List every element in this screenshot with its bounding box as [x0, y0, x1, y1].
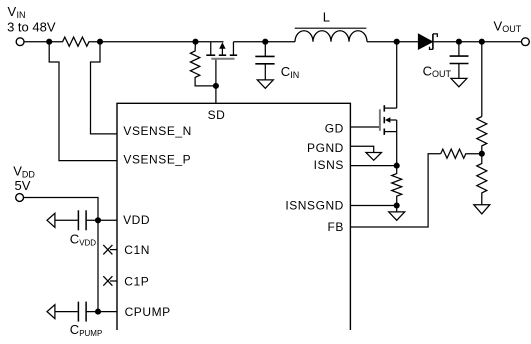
svg-text:C1N: C1N — [124, 243, 150, 257]
junction E (CIN tap) — [262, 39, 268, 45]
ground (divider) — [474, 205, 490, 214]
svg-text:ISNS: ISNS — [314, 158, 344, 172]
svg-text:ISNSGND: ISNSGND — [285, 199, 344, 213]
junction I (ISNS node) — [394, 163, 400, 169]
svg-text:C: C — [423, 63, 432, 78]
terminal V_DD — [16, 194, 24, 202]
ground (under COUT) — [451, 78, 467, 86]
wire PMOS drain to inductor — [233, 41, 295, 43]
wire VDD node to CPUMP node — [97, 220, 99, 311]
junction A (VSENSE_P tap) — [46, 39, 52, 45]
junction L (VDD node) — [95, 217, 101, 223]
svg-text:5V: 5V — [15, 178, 31, 193]
transistor Q1 PMOS pass FET — [206, 42, 237, 59]
IC U1 (controller outline, open at bottom) — [117, 103, 350, 330]
svg-text:C1P: C1P — [124, 274, 149, 288]
capacitor CPUMP — [55, 302, 117, 322]
svg-text:SD: SD — [208, 108, 226, 122]
wire ISNSGND — [350, 205, 396, 207]
wire VDD input — [24, 198, 99, 221]
svg-text:V: V — [8, 4, 17, 19]
resistor (divider upper) — [477, 117, 487, 154]
svg-text:L: L — [323, 10, 330, 25]
wire ISNS — [350, 165, 396, 167]
capacitor CVDD — [55, 210, 117, 230]
wire VSENSE_N — [91, 42, 118, 134]
junction F (switch node) — [394, 39, 400, 45]
svg-text:V: V — [13, 164, 22, 179]
junction G (COUT tap) — [456, 39, 462, 45]
terminal V_IN — [16, 38, 24, 46]
wire inductor to diode — [367, 41, 418, 43]
ground (under CIN) — [257, 80, 273, 88]
svg-text:C: C — [70, 232, 79, 247]
svg-text:OUT: OUT — [432, 69, 452, 79]
node V_IN label — [7, 4, 56, 34]
wire ISNSGND node to ground — [396, 206, 398, 212]
wire SD (gate lead) — [215, 60, 217, 104]
junction K (FB divider node) — [479, 151, 485, 157]
transistor Q2 NMOS switch — [380, 42, 397, 166]
no-connect X on C1P — [103, 276, 117, 286]
wire diode to VOUT — [434, 41, 522, 43]
wire input rail to PMOS — [100, 41, 224, 43]
svg-text:PUMP: PUMP — [79, 329, 102, 338]
junction D (SD gate node) — [213, 83, 219, 89]
wire FB — [350, 154, 440, 227]
svg-text:3 to 48V: 3 to 48V — [7, 19, 56, 34]
svg-text:GD: GD — [325, 122, 344, 136]
ground (CPUMP, left pointing) — [47, 305, 55, 319]
resistor (input sense) — [49, 37, 100, 46]
svg-text:PGND: PGND — [307, 141, 344, 155]
junction J (ISNSGND node) — [394, 202, 400, 208]
diode D1 schottky — [418, 34, 437, 50]
inductor L — [295, 31, 367, 42]
node V_DD label — [13, 164, 35, 194]
svg-text:VSENSE_P: VSENSE_P — [123, 152, 191, 166]
label COUT — [423, 63, 452, 79]
wire GD — [350, 126, 379, 128]
svg-text:CPUMP: CPUMP — [125, 305, 171, 319]
junction B (VSENSE_N tap) — [97, 39, 103, 45]
node V_OUT label — [494, 18, 522, 34]
junction H (divider tap) — [479, 39, 485, 45]
ground (CVDD, left pointing) — [47, 213, 55, 227]
label CIN — [281, 64, 299, 80]
wire V_IN to sense resistor — [24, 41, 49, 43]
ground (ISNSGND) — [389, 212, 405, 220]
svg-text:VSENSE_N: VSENSE_N — [123, 124, 191, 138]
svg-text:OUT: OUT — [502, 24, 522, 34]
resistor (divider lower) — [477, 154, 487, 205]
junction M (CPUMP node) — [95, 309, 101, 315]
label CPUMP — [70, 322, 103, 338]
svg-text:C: C — [70, 322, 79, 337]
capacitor COUT — [450, 42, 469, 79]
svg-text:FB: FB — [327, 220, 343, 234]
resistor (FB series) — [441, 149, 482, 158]
wire PGND — [350, 146, 373, 152]
svg-text:VDD: VDD — [123, 213, 150, 227]
resistor (current sense) — [392, 166, 402, 206]
resistor (PMOS gate pulldown) — [190, 42, 216, 86]
label CVDD — [70, 232, 97, 248]
capacitor CIN — [255, 42, 274, 80]
wire VSENSE_P — [49, 42, 117, 161]
terminal V_OUT — [522, 38, 530, 46]
svg-text:V: V — [494, 18, 503, 33]
junction C (gate resistor tap) — [192, 39, 198, 45]
wire VOUT to divider — [481, 42, 483, 117]
svg-text:VDD: VDD — [79, 238, 96, 247]
ground (PGND) — [366, 153, 382, 161]
svg-text:IN: IN — [290, 70, 299, 80]
svg-text:C: C — [281, 64, 290, 79]
inductor L bar — [295, 27, 367, 29]
no-connect X on C1N — [103, 245, 117, 255]
